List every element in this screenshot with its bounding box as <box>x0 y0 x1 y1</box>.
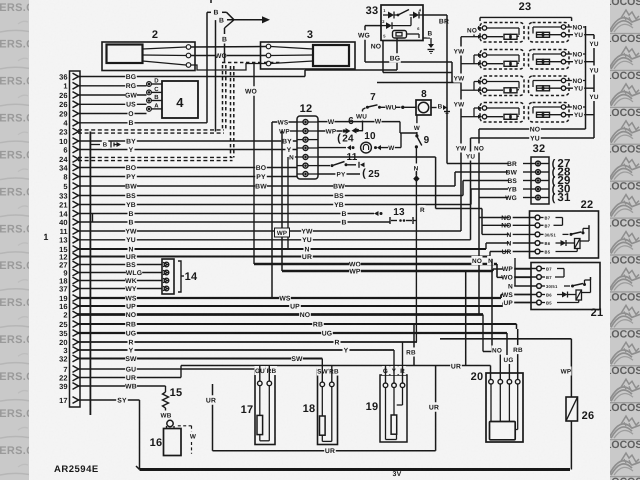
svg-text:LOCOSTБ: LOCOSTБ <box>605 254 640 266</box>
svg-text:LOCOSTБ: LOCOSTБ <box>605 70 640 82</box>
svg-text:LOCOSTБ: LOCOSTБ <box>605 33 640 45</box>
svg-text:LOCOSTБ: LOCOSTБ <box>605 291 640 303</box>
svg-text:LOCOSTБ: LOCOSTБ <box>605 328 640 340</box>
svg-text:LOCOSTБ: LOCOSTБ <box>605 0 640 8</box>
svg-text:LOCOSTБ: LOCOSTБ <box>605 476 640 480</box>
svg-text:LOCOSTБ: LOCOSTБ <box>605 144 640 156</box>
svg-text:LOCOSTБ: LOCOSTБ <box>605 402 640 414</box>
svg-text:LOCOSTБ: LOCOSTБ <box>605 218 640 230</box>
svg-text:LOCOSTБ: LOCOSTБ <box>605 181 640 193</box>
svg-text:LOCOSTБ: LOCOSTБ <box>605 439 640 451</box>
svg-text:LOCOSTБ: LOCOSTБ <box>605 365 640 377</box>
svg-text:LOCOSTБ: LOCOSTБ <box>605 107 640 119</box>
